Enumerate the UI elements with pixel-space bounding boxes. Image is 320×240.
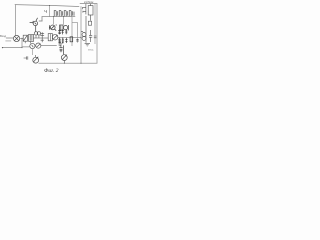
svg-text:2-й блок: 2-й блок [84, 0, 94, 4]
wire lower-left bus [3, 46, 30, 49]
wire input lower tick [6, 40, 11, 42]
svg-text:Вход: Вход [0, 34, 7, 38]
wire junction vertical mixer-to-bus [21, 38, 23, 47]
transistor stage Q1 (upper small circle with leads) [30, 18, 38, 32]
wire left vertical [14, 5, 16, 36]
transformer T2 (stacked circles) [81, 32, 86, 41]
meter M1 (circle) [30, 43, 35, 48]
wire bottom bus [39, 62, 97, 64]
wire right vertical [96, 4, 98, 64]
winding W4 [69, 10, 72, 16]
svg-text:Ч: Ч [44, 9, 47, 14]
riser from top wire [49, 6, 51, 17]
oscillator box U2 [48, 34, 52, 41]
wire lower mid [41, 44, 57, 46]
filter block Z1 (hatched box) [23, 35, 27, 41]
meter M2 (circle with slash) [36, 43, 41, 48]
caps on right risers [89, 30, 96, 42]
transformer T1 (two small circles) [34, 32, 40, 38]
ground symbol [85, 43, 90, 46]
capacitor C1 (stacked bars on riser) [40, 32, 44, 42]
wire top-right horizontal [80, 3, 97, 5]
wire jog right of mid wire [72, 17, 78, 46]
svg-text:анод: анод [88, 49, 94, 52]
right block box B1 [88, 4, 93, 21]
wire mid-left hook [39, 17, 42, 21]
crystal filter Z2 (box with bars) [25, 34, 33, 43]
mixer U1 [14, 35, 20, 41]
oscillator G1 (circle with arrow) [52, 34, 58, 40]
right riser x95 [94, 4, 96, 44]
component mark 3 [86, 16, 92, 43]
vertical below M1 [32, 49, 34, 55]
detector stage U3 cluster [60, 25, 69, 30]
winding W3 [64, 10, 67, 16]
ladder network L1 (left column caps/resistors) [58, 29, 64, 43]
winding W2 [59, 10, 62, 16]
wire main signal row [6, 37, 81, 38]
wire top-left horizontal [15, 5, 79, 7]
winding W1 [54, 10, 57, 16]
wire mid horizontal [42, 16, 75, 18]
riser to G1 with transistor Q2 cluster [49, 17, 56, 31]
winding tick W5 [73, 12, 75, 16]
wire long mid vertical [80, 7, 82, 64]
right small elements E1 [83, 4, 86, 15]
generator G3 (circle with arrow at bus) [61, 55, 67, 64]
riser x63.5 [63, 17, 65, 25]
junction dots [2, 5, 82, 64]
ladder network L2 (mid column) [65, 29, 79, 43]
coupling cluster C5 [59, 42, 64, 55]
capacitor C6 (left of lower circle) [24, 56, 28, 59]
svg-text:Фиг. 2: Фиг. 2 [44, 68, 59, 74]
generator G2 (lower circle with arrow) [33, 55, 39, 63]
